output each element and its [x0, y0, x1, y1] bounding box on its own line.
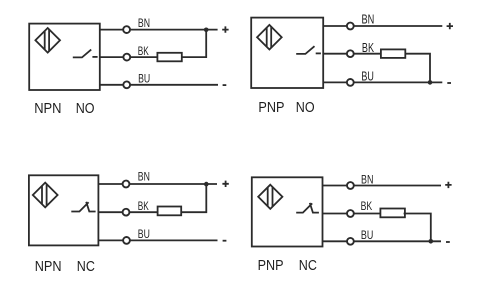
svg-text:NPN: NPN	[35, 259, 62, 275]
svg-text:BK: BK	[138, 200, 149, 213]
wire resistor to node (NPN NC)	[181, 184, 207, 212]
wire BU (NPN NO)	[100, 84, 218, 86]
caption PNP NC	[258, 258, 317, 274]
minus terminal (NPN NC)	[223, 240, 227, 242]
load resistor (PNP NC)	[380, 209, 405, 218]
minus terminal (NPN NO)	[223, 84, 227, 86]
svg-text:BK: BK	[362, 40, 374, 55]
svg-text:BN: BN	[138, 170, 150, 183]
sensor body box (PNP NC)	[252, 177, 323, 246]
svg-text:NPN: NPN	[34, 101, 61, 117]
plus terminal (NPN NO)	[222, 26, 228, 32]
junction dot (PNP NO)	[428, 80, 433, 85]
sensor body box (NPN NO)	[29, 24, 100, 90]
svg-text:BU: BU	[361, 228, 373, 242]
minus terminal (PNP NC)	[446, 241, 450, 243]
svg-text:NC: NC	[77, 259, 95, 275]
sensor body box (NPN NC)	[29, 175, 99, 245]
wire BK (NPN NC)	[98, 211, 157, 213]
wire BN (NPN NO)	[100, 29, 218, 31]
terminal circle BU (NPN NO)	[123, 81, 130, 88]
wire BK (PNP NC)	[323, 213, 380, 215]
terminal circle BN (NPN NO)	[123, 26, 130, 33]
svg-text:BK: BK	[138, 45, 149, 58]
svg-text:BU: BU	[138, 73, 150, 86]
wire BN (NPN NC)	[98, 183, 217, 185]
terminal circle BN (PNP NO)	[347, 23, 354, 30]
wire BK (NPN NO)	[100, 56, 158, 58]
wire BK (PNP NO)	[323, 53, 381, 55]
terminal circle BK (PNP NC)	[347, 210, 354, 217]
svg-text:BU: BU	[361, 68, 374, 83]
terminal circle BK (NPN NC)	[123, 209, 130, 216]
junction dot (NPN NC)	[204, 182, 209, 187]
load resistor (NPN NC)	[158, 207, 182, 216]
NO switch contact (NPN NO)	[73, 50, 98, 58]
sensor symbol diamond (PNP NO)	[257, 25, 282, 50]
svg-text:NO: NO	[76, 101, 95, 117]
sensor symbol diamond (NPN NC)	[33, 183, 58, 208]
terminal circle BK (PNP NO)	[347, 50, 354, 57]
wire BU (PNP NO)	[323, 81, 442, 83]
plus terminal (PNP NO)	[447, 23, 453, 29]
terminal circle BN (PNP NC)	[347, 182, 354, 189]
sensor body box (PNP NO)	[251, 18, 323, 88]
sensor symbol diamond (PNP NC)	[258, 185, 282, 209]
minus terminal (PNP NO)	[447, 82, 451, 84]
NC switch contact (NPN NC)	[71, 202, 95, 212]
caption NPN NC	[35, 259, 95, 275]
svg-text:PNP: PNP	[258, 258, 284, 274]
wire BN (PNP NC)	[323, 185, 442, 187]
junction dot (NPN NO)	[204, 28, 209, 33]
svg-text:BN: BN	[138, 17, 150, 30]
terminal circle BU (NPN NC)	[123, 237, 130, 244]
junction dot (PNP NC)	[429, 239, 434, 244]
svg-text:NO: NO	[296, 100, 315, 116]
wire resistor to node (NPN NO)	[182, 30, 206, 57]
svg-text:NC: NC	[299, 258, 317, 274]
svg-text:PNP: PNP	[258, 100, 284, 116]
wire resistor to node (PNP NC)	[404, 214, 431, 242]
plus terminal (PNP NC)	[445, 182, 451, 188]
wire BU (PNP NC)	[323, 240, 442, 242]
wire BU (NPN NC)	[98, 239, 217, 241]
NC switch contact (PNP NC)	[296, 203, 319, 213]
svg-text:BN: BN	[362, 11, 375, 26]
wire BN (PNP NO)	[323, 25, 442, 27]
load resistor (PNP NO)	[381, 49, 405, 58]
caption NPN NO	[34, 101, 94, 117]
svg-text:BU: BU	[138, 228, 150, 241]
load resistor (NPN NO)	[157, 53, 181, 62]
terminal circle BN (NPN NC)	[123, 181, 130, 188]
caption PNP NO	[258, 100, 314, 116]
terminal circle BK (NPN NO)	[123, 54, 130, 61]
terminal circle BU (PNP NC)	[347, 238, 354, 245]
svg-text:BN: BN	[361, 172, 373, 186]
plus terminal (NPN NC)	[222, 181, 228, 187]
sensor symbol diamond (NPN NO)	[35, 28, 60, 53]
NO switch contact (PNP NO)	[296, 46, 321, 54]
wire resistor to node (PNP NO)	[405, 54, 430, 83]
svg-text:BK: BK	[361, 199, 373, 213]
terminal circle BU (PNP NO)	[347, 79, 354, 86]
